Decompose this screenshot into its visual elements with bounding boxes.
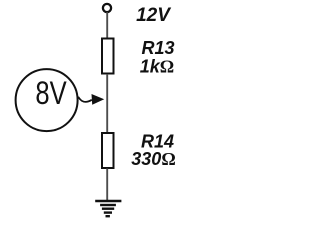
resistor R14: [102, 133, 114, 168]
svg-text:12V: 12V: [136, 5, 171, 26]
node 12V terminal: [103, 4, 111, 12]
svg-text:1kΩ: 1kΩ: [140, 57, 174, 77]
voltmeter pointer wire: [78, 97, 92, 102]
wire terminal to R13: [106, 12, 108, 38]
svg-text:330Ω: 330Ω: [131, 149, 175, 169]
wire R13 to R14: [106, 74, 108, 132]
wire R14 to ground: [106, 169, 108, 202]
ground: [95, 201, 121, 216]
voltmeter V1 circle: [16, 69, 78, 131]
resistor R13: [102, 39, 114, 74]
svg-text:8V: 8V: [35, 77, 67, 112]
svg-text:R13: R13: [141, 38, 174, 58]
voltmeter pointer arrowhead: [92, 94, 105, 105]
